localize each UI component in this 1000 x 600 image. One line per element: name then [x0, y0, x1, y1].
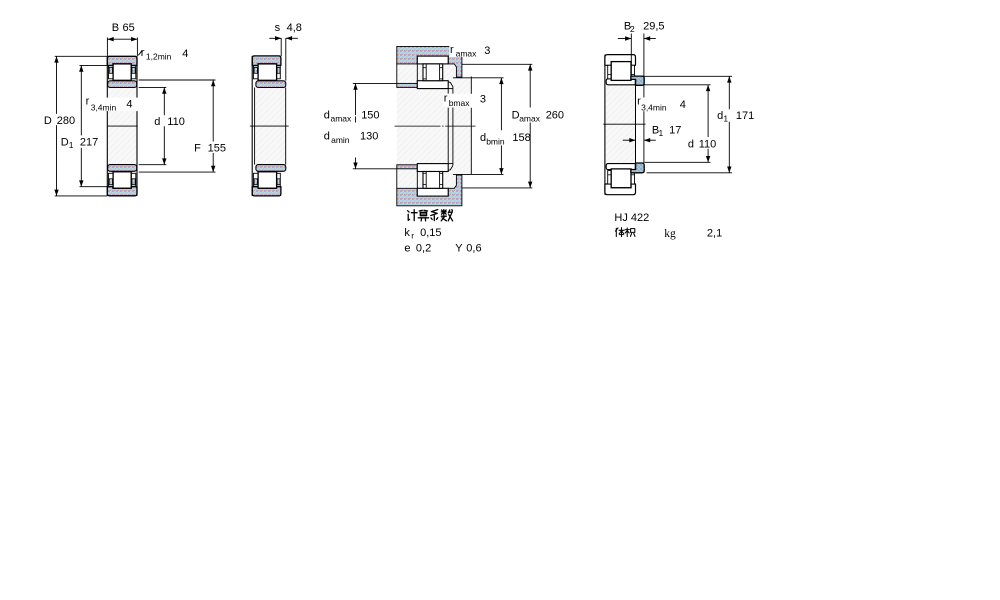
shaft section (drawing 4) — [605, 85, 636, 163]
dimension s extension lines — [280, 38, 282, 56]
inner ring top (drawing 3) — [417, 81, 448, 89]
svg-text:r: r — [411, 231, 414, 241]
shaft end line (drawing 3) — [470, 77, 472, 94]
dimension d line — [707, 85, 709, 163]
svg-text:65: 65 — [123, 22, 135, 34]
inner ring bottom (drawing 3) — [417, 164, 448, 172]
svg-text:3,4min: 3,4min — [641, 103, 667, 113]
svg-text:3,4min: 3,4min — [91, 102, 117, 112]
roller top (drawing 1) — [113, 64, 131, 80]
bearing side lines (drawing 1) — [106, 56, 108, 196]
outer ring bottom (drawing 2) — [252, 187, 281, 196]
svg-text:r: r — [86, 96, 90, 108]
label d 110 — [153, 115, 187, 126]
svg-text:d: d — [688, 139, 694, 151]
housing shoulder bottom (drawing 3) — [397, 175, 462, 206]
svg-text:bmax: bmax — [449, 98, 471, 108]
svg-text:k: k — [404, 227, 410, 239]
svg-text:amin: amin — [331, 135, 350, 145]
svg-text:r: r — [141, 47, 145, 59]
svg-text:280: 280 — [57, 115, 75, 127]
label tiji (volume) — [615, 228, 635, 237]
shaft shoulder face top (drawing 3) — [453, 77, 504, 79]
outer ring top (drawing 1) — [107, 56, 137, 65]
svg-text:1: 1 — [659, 128, 664, 138]
svg-text:0,2: 0,2 — [416, 242, 431, 254]
dimension d extension lines — [644, 84, 710, 86]
dimension s arrows — [269, 37, 281, 39]
HJ angle ring bottom (drawing 4) — [631, 163, 644, 173]
outer ring top (drawing 3) — [417, 56, 448, 64]
svg-text:amax: amax — [456, 49, 478, 59]
svg-text:217: 217 — [80, 137, 98, 149]
left rib bottom (drawing 2) — [253, 173, 258, 186]
shaft fillet bottom (drawing 3) — [448, 166, 453, 171]
svg-text:3: 3 — [480, 94, 486, 106]
svg-text:4,8: 4,8 — [287, 22, 302, 34]
label d1 171 — [717, 109, 751, 121]
shaft and housing hatch base (drawing 3) — [397, 46, 472, 205]
label B1 17 — [651, 123, 680, 136]
label jisuanxishu (calculation factors) — [408, 210, 453, 221]
roller bottom (drawing 4) — [611, 169, 631, 188]
svg-text:B: B — [112, 22, 119, 34]
dimension B2 arrows — [618, 38, 632, 40]
inner ring bottom (drawing 4) — [606, 164, 635, 170]
dimension d line — [163, 87, 165, 164]
left rib bottom (drawing 1) — [109, 173, 114, 186]
svg-text:158: 158 — [512, 132, 530, 144]
svg-text:2: 2 — [630, 24, 635, 34]
label rbmax 3 — [443, 94, 473, 106]
shaft shoulder vertical line (drawing 3) — [452, 87, 454, 94]
inner ring seat line (drawing 3) — [447, 89, 449, 94]
roller bottom (drawing 1) — [113, 172, 131, 188]
axis line (drawing 1) — [107, 125, 138, 127]
svg-text:s: s — [275, 22, 281, 34]
inner ring top (drawing 2) — [256, 81, 286, 88]
roller bottom (drawing 2) — [258, 172, 277, 188]
dimension D extension lines — [55, 55, 108, 57]
dimension B1 arrows — [623, 139, 636, 141]
dimension d extension lines — [139, 86, 167, 88]
dimension F line — [212, 80, 214, 172]
svg-text:4: 4 — [182, 48, 188, 60]
label D1 217 — [60, 135, 97, 147]
svg-text:HJ 422: HJ 422 — [614, 212, 649, 224]
svg-text:D: D — [61, 137, 69, 149]
label D 280 — [43, 114, 75, 125]
right rib top (drawing 1) — [131, 66, 136, 79]
svg-text:D: D — [44, 115, 52, 127]
svg-text:110: 110 — [167, 116, 185, 128]
label F 155 — [193, 142, 223, 153]
left rib bottom (drawing 4) — [608, 171, 612, 185]
shaft abutment strip top (drawing 3) — [397, 83, 418, 87]
svg-text:r: r — [450, 44, 454, 56]
dimension Da extension lines — [462, 63, 532, 65]
shaft abutment strip bottom (drawing 3) — [397, 165, 418, 169]
svg-text:0,6: 0,6 — [466, 242, 481, 254]
svg-text:d: d — [324, 109, 330, 121]
svg-text:17: 17 — [669, 125, 681, 137]
svg-text:0,15: 0,15 — [420, 227, 441, 239]
label Damax 260 — [511, 108, 542, 123]
svg-text:r: r — [444, 93, 448, 105]
svg-text:155: 155 — [208, 143, 226, 155]
svg-text:1: 1 — [69, 140, 74, 150]
right rib bottom (drawing 1) — [131, 173, 136, 186]
svg-text:1: 1 — [723, 114, 728, 124]
svg-text:130: 130 — [360, 131, 378, 143]
HJ angle ring top (drawing 4) — [631, 76, 644, 85]
svg-text:2,1: 2,1 — [707, 228, 722, 240]
svg-text:260: 260 — [546, 109, 564, 121]
housing shoulder top (drawing 3) — [397, 46, 462, 77]
outer ring top (drawing 2) — [252, 56, 281, 66]
clearance gap edges (drawing 3) — [396, 64, 398, 84]
dimension db line — [500, 78, 502, 175]
dimension d1 extension lines — [644, 75, 732, 77]
outer ring bottom (drawing 4) — [605, 184, 636, 195]
outer ring bottom (drawing 3) — [417, 188, 448, 196]
label ramax 3 — [449, 45, 479, 57]
dimension Da line — [529, 64, 531, 188]
svg-text:e: e — [404, 242, 410, 254]
svg-text:3: 3 — [484, 45, 490, 57]
dimension B2 extension lines — [630, 34, 632, 77]
inner ring top (drawing 1) — [108, 81, 137, 88]
inner ring top (drawing 4) — [606, 79, 635, 85]
roller top (drawing 2) — [258, 64, 277, 80]
label d 110 (drawing 4) — [687, 137, 718, 149]
left rib top (drawing 1) — [109, 66, 114, 79]
outer ring bottom (drawing 1) — [107, 187, 137, 196]
svg-text:d: d — [717, 110, 723, 122]
svg-text:1,2min: 1,2min — [146, 52, 172, 62]
shaft section (drawing 2) — [255, 88, 286, 165]
svg-text:110: 110 — [699, 139, 717, 151]
label r3,4min 4 — [85, 98, 138, 112]
dimension B extension lines — [106, 38, 108, 57]
right rib top (drawing 4) — [631, 65, 635, 79]
dimension d1 line — [728, 76, 730, 173]
dimension F extension lines — [139, 79, 216, 81]
dimension da extension lines — [353, 82, 397, 84]
shaft fillet top (drawing 3) — [448, 82, 453, 87]
bearing side line left (drawing 2) — [251, 56, 253, 196]
axis line (drawing 2) — [250, 125, 289, 127]
svg-text:Y: Y — [455, 242, 463, 254]
roller top (drawing 3) — [423, 64, 443, 81]
shaft section (drawing 1) — [107, 88, 137, 165]
outer ring top (drawing 4) — [605, 55, 636, 66]
leader r1,2min — [138, 50, 142, 55]
right rib top (drawing 2) — [277, 66, 281, 79]
inner ring bottom (drawing 1) — [108, 165, 137, 172]
dimension D1 extension lines — [80, 64, 108, 66]
dimension D1 line — [80, 65, 82, 186]
left rib top (drawing 4) — [608, 65, 612, 79]
label r3,4min 4 (drawing 4) — [636, 98, 688, 112]
svg-text:4: 4 — [680, 99, 686, 111]
svg-text:d: d — [324, 131, 330, 143]
svg-text:29,5: 29,5 — [643, 20, 664, 32]
svg-text:F: F — [194, 143, 201, 155]
right rib bottom (drawing 2) — [277, 173, 281, 186]
dimension da line — [355, 83, 357, 115]
axis line (drawing 4) — [603, 123, 645, 125]
svg-text:150: 150 — [361, 109, 379, 121]
dimension D line — [56, 56, 58, 196]
label dbmin 158 — [479, 130, 506, 145]
shaft shoulder face bottom (drawing 3) — [453, 173, 504, 175]
svg-text:kg: kg — [664, 228, 676, 240]
roller top (drawing 4) — [611, 62, 631, 81]
svg-text:171: 171 — [736, 110, 754, 122]
svg-text:d: d — [154, 116, 160, 128]
svg-text:amax: amax — [519, 114, 541, 124]
right rib bottom (drawing 4) — [631, 171, 635, 185]
bearing left side line (drawing 4) — [604, 55, 606, 195]
inner ring bottom (drawing 2) — [256, 165, 286, 172]
svg-text:amax: amax — [331, 114, 353, 124]
svg-text:bmin: bmin — [486, 137, 505, 147]
dimension B line — [107, 38, 137, 40]
axis line (drawing 3) — [395, 125, 441, 127]
roller bottom (drawing 3) — [423, 172, 443, 189]
svg-text:4: 4 — [126, 99, 132, 111]
left rib top (drawing 2) — [253, 66, 258, 79]
